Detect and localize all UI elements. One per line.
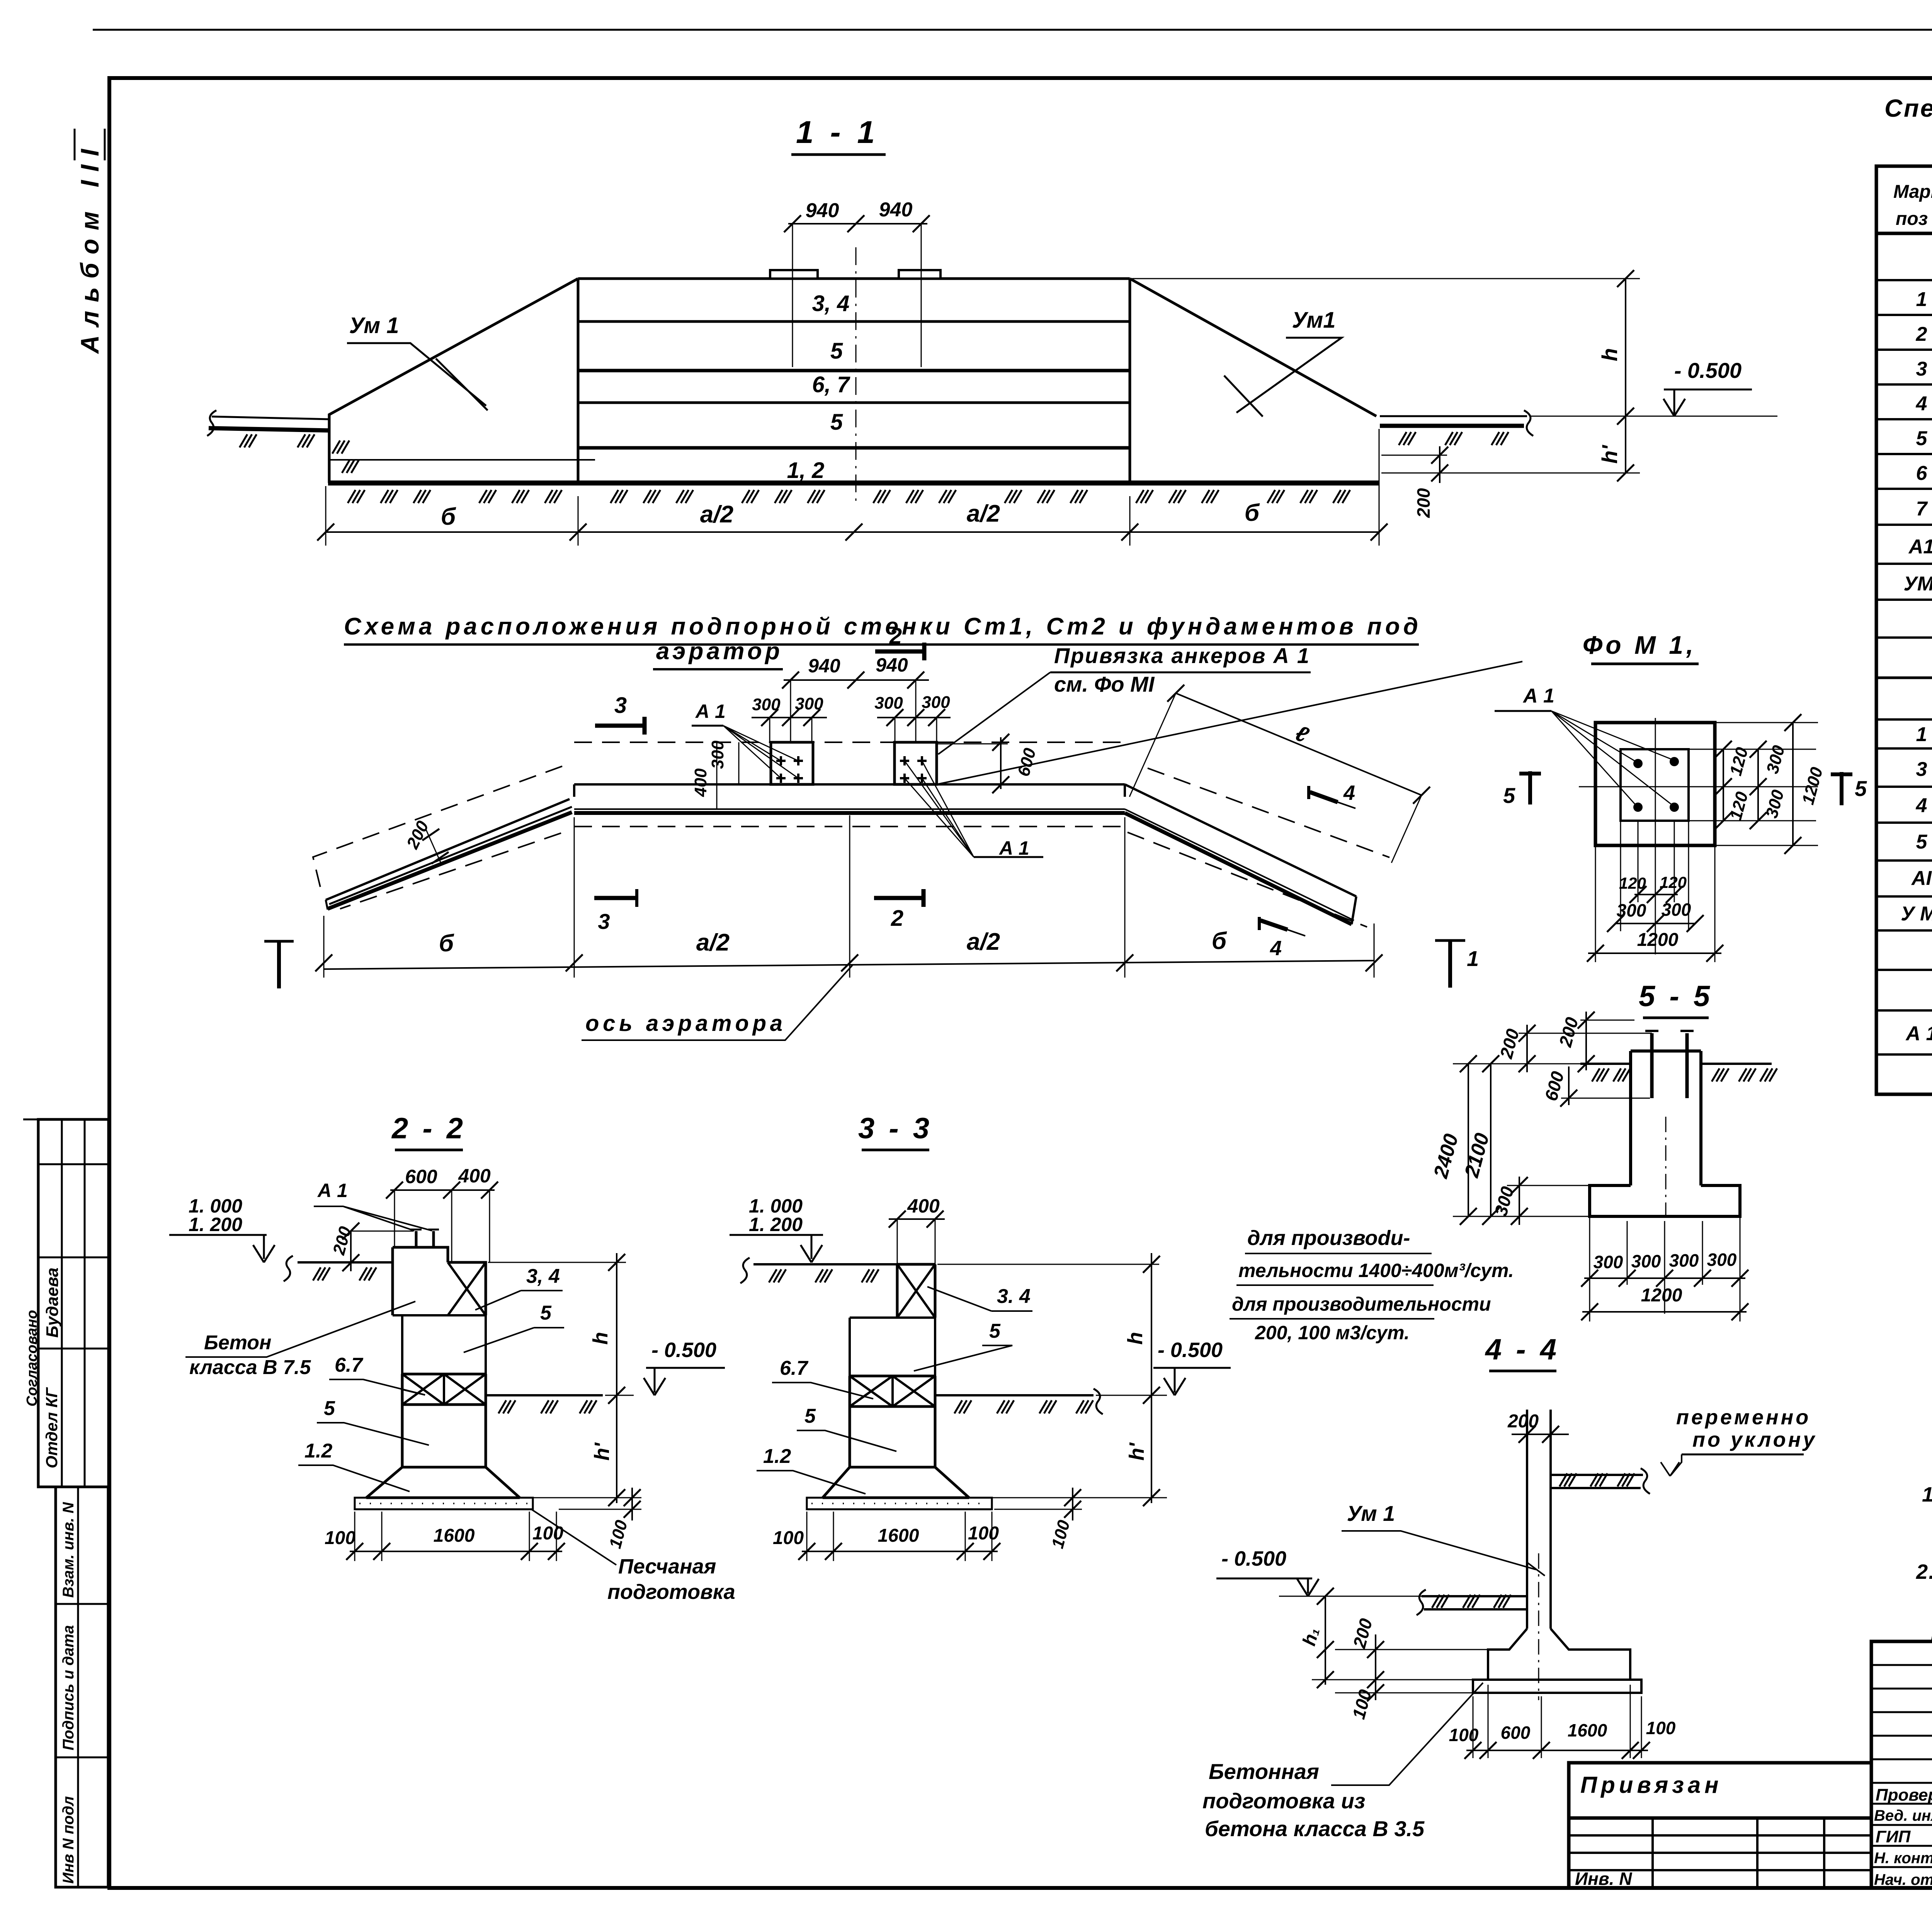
anchor plate A1 right plan [895,742,937,784]
FoM1 anchor bolts [1633,759,1643,768]
svg-text:см. Фо МI: см. Фо МI [1054,672,1155,696]
svg-text:3: 3 [1916,358,1927,380]
svg-text:300: 300 [1662,900,1691,920]
svg-text:300: 300 [922,693,950,712]
svg-text:б: б [441,503,456,530]
base plate 4-4 [1473,1680,1641,1693]
svg-text:100: 100 [325,1528,355,1548]
svg-text:подготовка: подготовка [607,1580,735,1604]
svg-text:200: 200 [1413,488,1434,518]
svg-text:- 0.500: - 0.500 [1158,1338,1223,1362]
svg-text:h': h' [590,1442,614,1461]
spec rows block 1 [1904,288,1932,634]
svg-text:Н. контр.: Н. контр. [1874,1850,1932,1867]
svg-text:Привязан: Привязан [1580,1772,1722,1798]
dim 100 sand right 3-3 [994,1498,1082,1509]
svg-text:940: 940 [806,199,839,222]
svg-text:Привязка анкеров А 1: Привязка анкеров А 1 [1054,643,1309,668]
wall stem 4-4 [1527,1410,1551,1629]
wall central band plan [574,783,1125,786]
svg-text:1600: 1600 [1568,1720,1607,1740]
svg-text:Бетон: Бетон [204,1332,271,1354]
svg-text:100: 100 [532,1523,563,1544]
anchor plate right on wall top [899,270,940,279]
dim 100 sand right 2-2 [535,1498,641,1509]
ground line right 2-2 [486,1394,603,1396]
svg-text:4: 4 [1916,393,1927,415]
svg-text:4: 4 [1343,781,1355,804]
title block privyazan cell [1569,1763,1871,1818]
FoM1 right dim 1200 [1715,723,1818,845]
svg-text:для производительности: для производительности [1232,1293,1491,1315]
foundation column 5-5 [1631,1051,1701,1185]
svg-text:300: 300 [1707,1250,1737,1270]
svg-text:АI: АI [1911,867,1932,889]
bottom dim 1200 [1582,1311,1747,1313]
svg-text:- 0.500: - 0.500 [1221,1547,1286,1570]
anchor plate left on wall top [770,270,818,279]
svg-text:Подпись и дата: Подпись и дата [60,1625,77,1750]
svg-text:а/2: а/2 [967,500,1000,527]
left embankment slope Um1 [329,279,578,483]
wall left wing plan [326,799,570,900]
svg-text:1.2: 1.2 [763,1445,791,1468]
svg-text:3. 4: 3. 4 [997,1285,1031,1308]
ground line right of wall [1380,415,1527,417]
svg-text:100: 100 [968,1523,999,1544]
svg-text:аэратор: аэратор [656,638,780,665]
svg-text:б: б [1212,928,1227,954]
svg-text:5: 5 [324,1397,335,1420]
svg-text:А 1: А 1 [1905,1022,1932,1045]
svg-text:б: б [439,930,454,957]
cross row 6,7 3-3 [891,1376,894,1406]
svg-text:h: h [589,1332,612,1345]
svg-text:100: 100 [773,1528,804,1548]
svg-text:1. Для производительности 7: 1. Для производительности 700м³/сут. ( Б… [1922,1483,1932,1506]
svg-text:подготовка из: подготовка из [1202,1789,1365,1813]
svg-text:Песчаная: Песчаная [618,1555,716,1578]
svg-text:3 - 3: 3 - 3 [858,1112,932,1145]
svg-text:3, 4: 3, 4 [812,291,850,316]
svg-text:300: 300 [708,740,727,769]
svg-text:3, 4: 3, 4 [526,1265,560,1287]
bottom dims 100 600 1600 100 4-4 [1473,1685,1641,1758]
svg-text:А 1: А 1 [695,701,726,722]
dim h h' 2-2 [488,1262,634,1498]
FoM1 bottom dim 300 300 [1621,821,1689,931]
cross row 6,7 2-2 [443,1374,445,1405]
ground line right 3-3 [935,1394,1094,1396]
sheet outer top line [93,29,1932,31]
svg-text:для произвоdи-: для произвоdи- [1247,1226,1410,1250]
svg-text:1, 2: 1, 2 [787,458,825,483]
svg-text:Фо М 1,: Фо М 1, [1583,631,1697,659]
svg-text:4: 4 [1916,794,1927,817]
svg-text:а/2: а/2 [696,929,730,956]
centerline 4-4 [1538,1553,1539,1700]
svg-text:Отдел КГ: Отдел КГ [43,1387,61,1468]
spec table grid [1876,166,1932,1094]
svg-text:400: 400 [907,1195,940,1217]
svg-text:5: 5 [1916,427,1928,450]
svg-text:3: 3 [1916,758,1927,781]
svg-text:400: 400 [458,1165,491,1187]
spec rows Fo M1 [1905,1018,1932,1090]
svg-text:5: 5 [1503,783,1515,808]
svg-text:940: 940 [879,199,913,221]
wall elevation outline [578,279,1130,482]
svg-text:5: 5 [830,338,843,364]
left dims 2400 2100 [1453,1064,1590,1216]
svg-text:300: 300 [1631,1251,1661,1271]
svg-text:1.2: 1.2 [304,1440,332,1462]
right embankment slope Um1 [1130,279,1376,416]
svg-text:Будаева: Будаева [43,1267,62,1338]
svg-text:2: 2 [891,906,903,931]
svg-text:а/2: а/2 [967,929,1000,955]
svg-text:1600: 1600 [434,1526,475,1546]
FoM1 outer plate [1595,723,1715,845]
left margin lower stamp block [56,1487,108,1887]
svg-text:1200: 1200 [1641,1285,1682,1306]
svg-text:А 1: А 1 [998,837,1029,859]
dim extension lines right [1132,278,1640,279]
top cross block 3,4 marker 2-2 [448,1262,486,1315]
ground line left of wall [212,417,329,419]
centerline 5-5 [1665,1117,1667,1223]
wall outline 3-3 [823,1264,969,1498]
svg-text:4 - 4: 4 - 4 [1485,1333,1560,1366]
svg-text:300: 300 [1594,1252,1623,1272]
svg-text:Провер: Провер [1876,1786,1932,1804]
svg-text:б: б [1245,500,1260,526]
svg-text:5: 5 [804,1405,816,1427]
svg-text:Взам. инв. N: Взам. инв. N [60,1502,77,1598]
wall outline 2-2 [366,1247,520,1498]
dashed excavation top line [574,742,1125,743]
sand prep layer 2-2 [355,1498,533,1509]
svg-text:1 - 1: 1 - 1 [796,115,879,150]
FoM1 bottom dim 1200 [1595,845,1715,962]
svg-text:5: 5 [1916,831,1928,853]
svg-text:1: 1 [1467,946,1479,971]
svg-text:h': h' [1125,1442,1148,1461]
svg-text:- 0.500: - 0.500 [651,1338,716,1362]
svg-text:940: 940 [808,655,840,677]
ground slab left 4-4 [1422,1595,1528,1597]
svg-text:300: 300 [874,694,903,713]
svg-text:Ум 1: Ум 1 [1347,1501,1395,1526]
svg-text:1: 1 [1916,288,1927,311]
svg-text:а/2: а/2 [700,501,733,528]
title block left grid [1569,1818,1871,1888]
svg-text:5: 5 [989,1320,1001,1342]
svg-text:6: 6 [1916,462,1928,485]
svg-text:Инв N подл: Инв N подл [60,1796,77,1884]
left dim 200 upper [1519,1033,1652,1034]
svg-text:поз: поз [1896,209,1928,229]
ground line left 3-3 [753,1263,897,1265]
svg-text:бетона класса В 3.5: бетона класса В 3.5 [1205,1816,1425,1841]
svg-text:2: 2 [1916,323,1927,345]
svg-text:1: 1 [1916,723,1927,746]
svg-text:Инв. N: Инв. N [1575,1869,1632,1889]
svg-text:300: 300 [1617,900,1646,920]
svg-text:940: 940 [876,654,908,676]
dashed line right wing upper [1148,768,1389,857]
left margin upper stamp block [23,1119,109,1487]
dim h h' 3-3 [937,1264,1167,1498]
svg-text:5: 5 [830,410,843,435]
vertical dimension h and h' [1625,279,1626,473]
svg-text:7: 7 [1916,498,1928,520]
svg-text:переменно: переменно [1676,1406,1811,1429]
svg-text:h': h' [1597,445,1622,464]
svg-text:ось аэратора: ось аэратора [585,1011,782,1036]
svg-text:Альбом III: Альбом III [75,141,104,354]
ground hatch under base [348,490,365,503]
svg-text:2 - 2: 2 - 2 [391,1112,466,1145]
svg-text:200, 100 м3/сут.: 200, 100 м3/сут. [1255,1322,1410,1344]
svg-text:Вед. инж.: Вед. инж. [1874,1807,1932,1824]
svg-text:120: 120 [1660,873,1687,891]
svg-text:Согласовано: Согласовано [24,1310,40,1406]
svg-text:Ум1: Ум1 [1292,308,1336,333]
svg-text:400: 400 [691,768,710,797]
svg-text:ГИП: ГИП [1876,1827,1911,1846]
svg-text:120: 120 [1619,874,1646,892]
svg-text:1. 200: 1. 200 [189,1214,242,1235]
svg-text:Нач. отд: Нач. отд [1874,1871,1932,1888]
spec rows block 2 [1901,723,1932,964]
dim 300 footing height [1507,1185,1590,1186]
svg-text:5 - 5: 5 - 5 [1639,980,1713,1013]
ground line left 2-2 [298,1261,393,1264]
FoM1 bottom dim 120 120 [1638,821,1674,902]
svg-text:1. 200: 1. 200 [749,1214,803,1235]
dims h1 200 100 left 4-4 [1312,1650,1488,1693]
dashed lower line [574,826,1125,827]
svg-text:6.7: 6.7 [780,1357,808,1379]
signature table [1871,1641,1932,1888]
foundation footing 5-5 [1590,1185,1740,1216]
svg-text:h: h [1597,348,1622,361]
svg-text:600: 600 [1501,1723,1531,1743]
svg-text:А1: А1 [1908,536,1932,558]
svg-text:300: 300 [1669,1250,1699,1270]
sand prep layer 3-3 [807,1498,992,1509]
anchor bolts 5-5 [1652,1033,1687,1098]
svg-text:УМI: УМI [1904,573,1932,595]
dim 600 bolt depth [1561,1098,1650,1099]
svg-text:А 1: А 1 [317,1180,348,1201]
svg-text:1200: 1200 [1637,930,1679,950]
bottom dims 100 1600 100 2-2 [355,1512,556,1561]
svg-text:А 1: А 1 [1522,685,1554,707]
wall centerline [855,247,857,502]
FoM1 right dim 120 120 [1689,749,1816,821]
section mark 1 left [277,940,281,988]
dim L along right wing [1176,693,1422,795]
FoM1 right dim 300 300 [1757,749,1759,821]
svg-text:Схема расположения подпорной: Схема расположения подпорной стенки Ст1,… [344,613,1418,640]
footing 4-4 [1488,1629,1630,1680]
svg-text:100: 100 [1449,1725,1479,1745]
svg-text:100: 100 [1646,1718,1676,1738]
ground line 5-5 [1580,1063,1772,1065]
svg-text:5: 5 [1855,776,1867,801]
wall right wing plan [1125,784,1356,896]
svg-text:600: 600 [405,1166,437,1187]
svg-text:Бетонная: Бетонная [1209,1759,1319,1784]
bottom dims 100 1600 100 3-3 [807,1512,992,1561]
FoM1 inner plate [1621,749,1689,821]
svg-text:2. Поверхности всех сооруж: 2. Поверхности всех сооружений 2 мя слоя… [1916,1560,1932,1583]
plan bottom dimension line [324,961,1374,969]
svg-text:3: 3 [598,909,610,934]
foundation pit bottom line [329,459,595,461]
svg-text:3: 3 [614,693,627,718]
anchor plate A1 left plan [771,742,813,784]
svg-text:6.7: 6.7 [335,1354,363,1376]
anchor bolts on wall top 2-2 [416,1231,434,1247]
dashed line left wing upper [313,766,562,889]
svg-text:1600: 1600 [878,1526,919,1546]
top cross block 3.4 3-3 [897,1264,935,1318]
svg-text:6, 7: 6, 7 [812,372,850,397]
vertical label Album III [75,129,105,354]
svg-text:- 0.500: - 0.500 [1674,358,1742,383]
svg-text:Спецификация к схеме распо: Спецификация к схеме расположения подпор… [1884,94,1932,122]
svg-text:по уклону: по уклону [1692,1428,1817,1451]
svg-text:У МI: У МI [1901,903,1932,925]
svg-text:5: 5 [540,1302,552,1324]
bottom dims 300x4 [1590,1216,1740,1321]
svg-text:4: 4 [1270,937,1282,960]
svg-text:тельности 1400÷400м³/сут.: тельности 1400÷400м³/сут. [1238,1260,1514,1281]
FoM1 centerlines [1655,718,1656,954]
svg-text:2: 2 [889,624,902,649]
dimension 200 pit depth [1381,455,1447,456]
wall base thick line [328,481,1379,486]
bottom dimension line b a/2 a/2 b [326,531,1379,533]
svg-text:класса В 7.5: класса В 7.5 [189,1356,311,1379]
svg-text:Марка,: Марка, [1893,182,1932,202]
svg-text:h: h [1124,1332,1147,1345]
svg-text:Ум 1: Ум 1 [349,313,399,338]
long leader line to anchor [937,662,1522,784]
ground slab right 4-4 [1551,1474,1643,1476]
dim 200 near column [1580,1020,1634,1021]
